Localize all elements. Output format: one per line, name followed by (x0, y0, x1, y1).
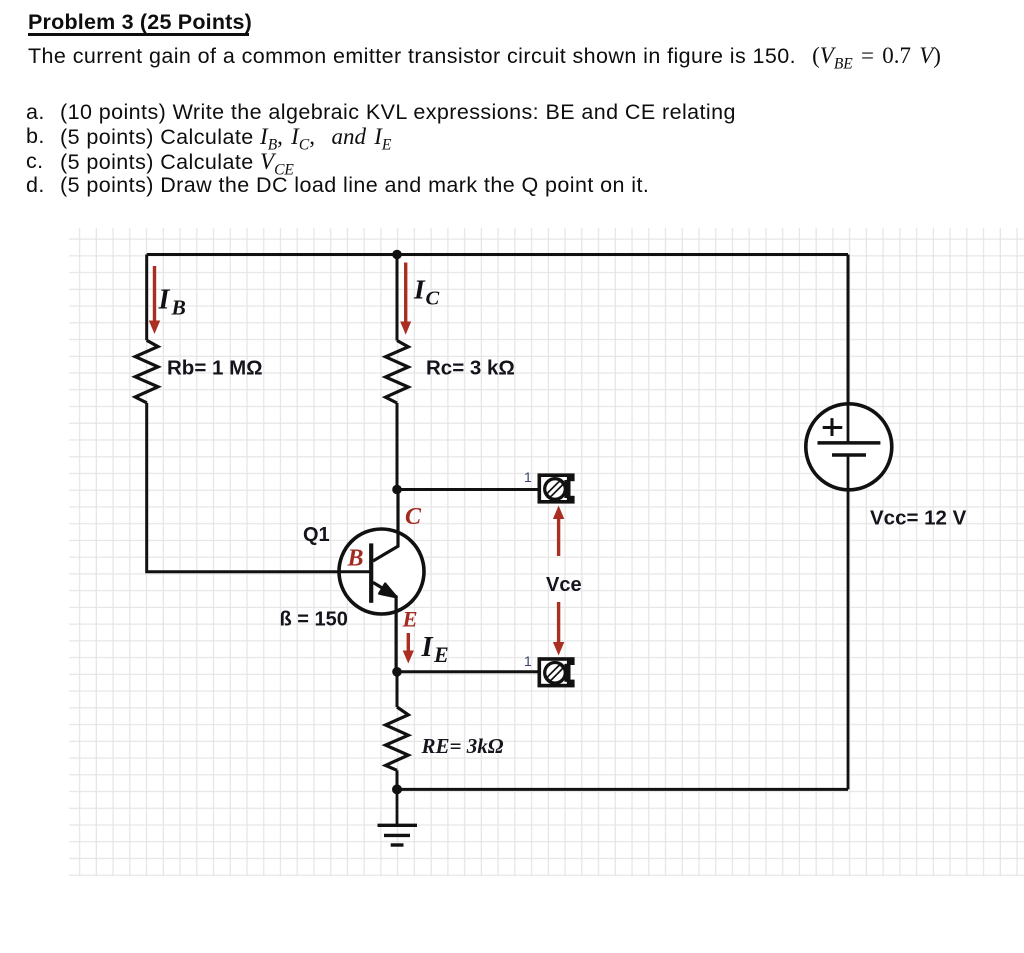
wire: emitter node to bottom terminal (397, 670, 539, 673)
wire: left branch upper (145, 255, 148, 341)
svg-text:B: B (171, 296, 186, 320)
svg-text:I: I (421, 632, 434, 663)
svg-text:Vcc= 12 V: Vcc= 12 V (870, 507, 967, 530)
list item b (26, 124, 45, 149)
resistor Rc (386, 341, 409, 404)
wire: emitter node to RE (396, 672, 399, 707)
transistor Q1 (339, 490, 424, 672)
svg-text:1: 1 (524, 653, 532, 669)
svg-text:ß = 150: ß = 150 (280, 609, 348, 631)
ground (378, 789, 418, 845)
svg-text:Rb= 1 MΩ: Rb= 1 MΩ (167, 357, 263, 380)
list item d (26, 173, 45, 198)
svg-text:E: E (402, 607, 418, 632)
terminal block 1 (emitter, Vce-) (539, 657, 574, 687)
junction node ground rail (392, 784, 402, 794)
svg-text:I: I (158, 285, 171, 316)
svg-text:Q1: Q1 (303, 524, 330, 546)
list item c (26, 149, 44, 174)
svg-text:RE= 3kΩ: RE= 3kΩ (421, 734, 504, 758)
voltage source Vcc (806, 404, 892, 790)
junction node at top rail / Rc (392, 250, 402, 260)
svg-text:1: 1 (524, 469, 532, 485)
svg-text:B: B (347, 546, 364, 572)
svg-text:C: C (426, 288, 440, 310)
svg-text:E: E (433, 642, 449, 667)
voltage arrow Vce up (553, 506, 564, 557)
wire: collector node to top terminal (397, 488, 539, 491)
title underline (28, 33, 249, 35)
resistor Rb (135, 340, 158, 403)
title: Problem 3 (25 Points) (28, 10, 252, 35)
terminal block 1 (collector, Vce+) (539, 473, 574, 503)
wire: collector branch upper (396, 255, 399, 341)
voltage arrow Vce down (553, 602, 564, 656)
current arrow IB (149, 266, 160, 334)
svg-text:Vce: Vce (546, 574, 582, 596)
list item a (26, 100, 45, 125)
wire: left branch lower + base lead (147, 403, 371, 572)
junction node emitter (392, 667, 402, 677)
current arrow IC (400, 263, 411, 335)
resistor RE (386, 707, 409, 770)
problem statement line (28, 43, 941, 74)
junction node collector (392, 485, 402, 495)
wire: top rail (147, 253, 848, 256)
wire: bottom rail (397, 788, 848, 791)
wire: Rc bottom to collector node (396, 403, 399, 490)
wire: right branch upper (847, 255, 850, 405)
svg-text:I: I (413, 274, 426, 305)
svg-text:C: C (405, 504, 422, 530)
svg-text:Rc= 3 kΩ: Rc= 3 kΩ (426, 357, 515, 380)
wire: RE bottom to ground node (396, 770, 399, 789)
current arrow IE (403, 633, 414, 664)
